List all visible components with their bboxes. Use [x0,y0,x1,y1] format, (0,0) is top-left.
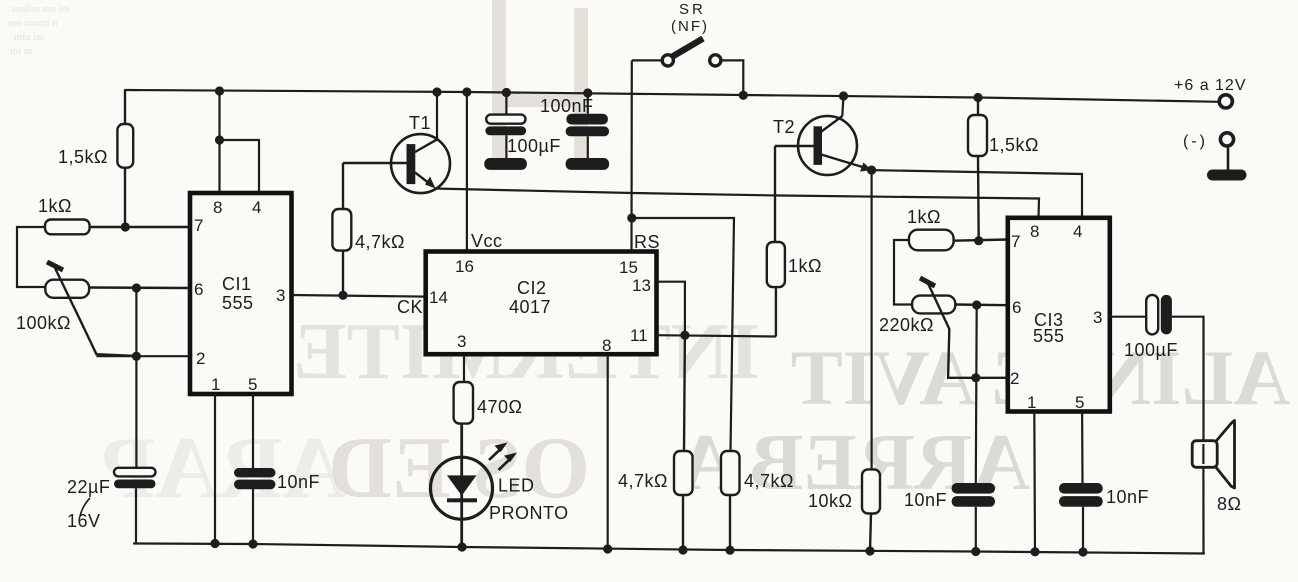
capacitor 22uF [114,468,156,544]
capacitor 100uF (output) [1110,295,1204,441]
junction rail/SR [739,91,748,100]
svg-text:CK: CK [397,297,423,317]
junction rail/100uF [502,88,511,97]
svg-text:4: 4 [252,198,261,217]
terminal minus [1207,133,1247,181]
svg-text:100kΩ: 100kΩ [16,313,71,333]
junction rail/CI1 pin8 [215,86,224,95]
svg-text:100nF: 100nF [540,96,594,116]
wire CI3 pin5 [1081,412,1084,553]
wire T2 emitter to CI3 pin4 [872,170,1082,218]
transistor T1 [343,92,450,193]
svg-text:3: 3 [457,332,466,351]
resistor R 4,7k A [674,335,693,550]
resistor R 1k (left) [45,220,190,235]
svg-text:umilm mn im: umilm mn im [12,4,70,15]
junction pin7 CI3 [974,236,983,245]
svg-text:100µF: 100µF [507,136,561,156]
junction rail/100nF [583,88,592,97]
svg-text:10nF: 10nF [1106,487,1149,507]
junction pin7 CI1 [121,222,130,231]
wire CI2 pin8 [607,355,609,549]
wire pin2 line CI1 [96,355,190,357]
svg-text:8Ω: 8Ω [1217,494,1241,514]
junction ground/10nF CI3 left [971,547,980,556]
junction rail/1,5k right [973,93,982,102]
wire left bracket [17,227,45,287]
svg-text:1,5kΩ: 1,5kΩ [58,147,108,167]
svg-text:11: 11 [630,326,648,345]
capacitor 10nF (CI3 left) [952,483,995,507]
resistor R 470 [454,382,473,424]
junction pin11/pin13 CI2 [680,331,689,340]
svg-text:1kΩ: 1kΩ [38,196,72,216]
svg-text:100µF: 100µF [1124,340,1178,360]
junction CK line [338,291,347,300]
junction rail/T2 collector [839,91,848,100]
svg-text:4,7kΩ: 4,7kΩ [355,232,405,252]
terminal +V [1219,95,1232,108]
op IC CI3 555 [1008,218,1110,412]
speaker 8ohm [1192,421,1234,554]
junction T2 emitter [867,166,876,175]
svg-text:470Ω: 470Ω [477,397,523,417]
svg-text:4,7kΩ: 4,7kΩ [744,471,794,491]
svg-text:8: 8 [602,336,611,355]
svg-text:7: 7 [194,216,203,235]
LED D1 [431,424,518,547]
junction ground/10nF CI1 [248,539,257,548]
wire RS vertical [630,60,632,251]
wire CI1 pin8 riser [220,91,260,193]
svg-text:5: 5 [248,375,257,394]
wire CI1 pin4 branch [220,140,260,193]
svg-text:22µF: 22µF [67,477,110,497]
transistor T2 [775,96,864,175]
svg-text:RS: RS [634,232,660,252]
wire CI3 pin1 [1033,412,1036,552]
junction ground/CI2 pin8 [603,544,612,553]
svg-text:4017: 4017 [509,297,551,317]
svg-text:T1: T1 [409,113,431,133]
resistor R 1,5k (right) [968,98,987,241]
svg-text:555: 555 [222,293,254,313]
svg-text:16V: 16V [67,511,101,531]
svg-text:(-): (-) [1183,133,1208,150]
junction pin6 CI3 [972,300,981,309]
wire CI2 pin11 line [657,335,776,336]
wire CI1 pin5 [252,394,254,544]
svg-text:2: 2 [1010,369,1019,388]
wire T2 emitter down [870,170,872,469]
svg-text:10nF: 10nF [277,472,320,492]
svg-text:SR: SR [679,1,706,18]
svg-text:miu im: miu im [14,32,45,43]
capacitor 100nF [566,93,610,170]
junction ground/4,7k A [678,545,687,554]
resistor R 4,7k (T1 base) [332,163,351,295]
junction pin8-pin4 branch [215,135,224,144]
junction rail/T1 collector [432,87,441,96]
capacitor 100uF (rail) [484,93,527,170]
svg-text:PRONTO: PRONTO [489,503,569,523]
svg-text:4,7kΩ: 4,7kΩ [618,471,668,491]
svg-text:8: 8 [1030,222,1039,241]
resistor R 10k [862,469,880,551]
svg-text:CI1: CI1 [222,274,252,294]
resistor R 1k (CI3) [909,230,1008,251]
svg-text:1: 1 [211,375,220,394]
svg-text:555: 555 [1033,326,1065,346]
svg-text:7: 7 [1011,232,1020,251]
svg-text:3: 3 [1093,308,1102,327]
wire CI1 pin3 to CI2 pin14 [292,295,426,297]
svg-text:10kΩ: 10kΩ [808,491,852,511]
svg-text:nm mumi n: nm mumi n [8,18,58,29]
resistor R 4,7k B [721,451,740,550]
op IC CI2 4017 [426,252,657,355]
svg-text:10nF: 10nF [904,490,947,510]
capacitor 10nF (CI1) [234,468,276,489]
wire top supply rail [125,90,1219,102]
svg-text:4: 4 [1073,222,1082,241]
junction ground/CI1 pin1 [210,539,219,548]
potentiometer 220k [912,278,1008,378]
svg-text:16: 16 [455,257,474,276]
svg-text:15: 15 [619,258,638,277]
capacitor 10nF (CI3 right) [1059,483,1103,507]
wire CI2 pin3 [463,355,465,383]
wire bottom ground rail [134,544,1204,554]
svg-text:1kΩ: 1kΩ [788,256,822,276]
junction ground/4,7k B [725,546,734,555]
junction ground/10k [865,546,874,555]
wire RS branch to 4,7k B [632,218,734,451]
resistor R 1,5k (left) [117,90,133,227]
wire CI1 pin1 [214,394,216,544]
svg-text:2: 2 [196,349,205,368]
svg-text:LED: LED [498,476,535,496]
junction rail/Vcc CI2 [462,87,471,96]
svg-text:14: 14 [429,288,448,307]
svg-text:3: 3 [276,286,285,305]
wire pin6-pin2-cap vertical [135,288,137,467]
potentiometer 100k [45,262,190,356]
wire CI2 pin13 branch [657,282,685,336]
junction ground/CI3 pin1 [1030,547,1039,556]
svg-text:+6 a 12V: +6 a 12V [1174,77,1247,94]
junction RS branch [627,213,636,222]
svg-text:220kΩ: 220kΩ [879,315,934,335]
wire Vcc riser CI2 [466,92,468,252]
svg-text:Vcc: Vcc [471,231,503,251]
svg-text:1kΩ: 1kΩ [907,207,941,227]
junction pin2 CI3 [971,373,980,382]
svg-text:im m: im m [10,46,33,57]
wire T1 emitter line to CI3 pin8 [434,189,1039,218]
svg-text:13: 13 [632,276,651,295]
svg-text:8: 8 [213,198,222,217]
svg-text:1,5kΩ: 1,5kΩ [989,135,1039,155]
svg-text:T2: T2 [773,117,795,137]
svg-text:5: 5 [1075,393,1084,412]
svg-text:CI2: CI2 [517,278,547,298]
svg-text:(NF): (NF) [671,18,709,35]
junction ground/LED [457,542,466,551]
junction pin2 CI1 [132,352,141,361]
junction ground/10nF CI3 right [1078,547,1087,556]
svg-text:6: 6 [1012,298,1021,317]
wire pin6-pin2 vertical CI3 [975,305,978,483]
switch SR [632,39,744,96]
svg-text:1: 1 [1027,393,1036,412]
svg-text:6: 6 [194,280,203,299]
junction pin6 CI1 [132,283,141,292]
op IC CI1 555 [190,193,292,394]
resistor R 1k (T2) [767,146,785,337]
wire bracket 1k/220k [894,240,912,305]
